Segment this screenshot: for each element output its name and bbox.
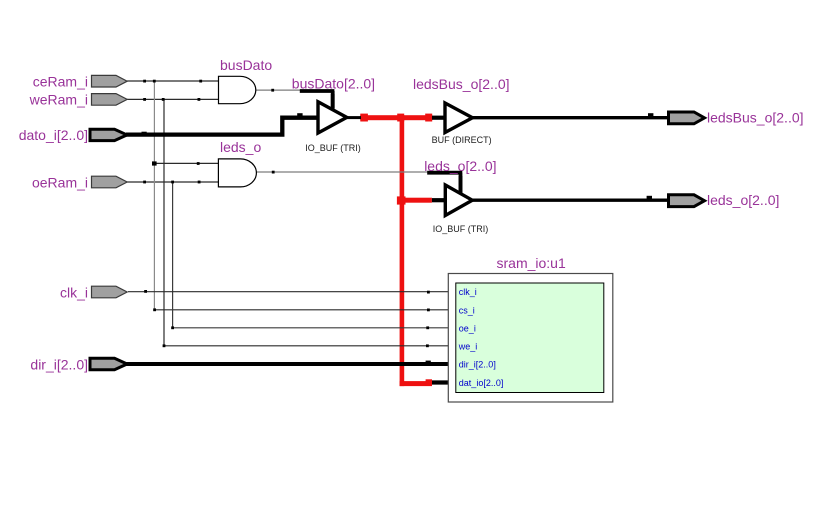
bus leds_o control elbow into IO_BUF2 top xyxy=(427,173,462,194)
junction dot ceRam c xyxy=(199,80,202,83)
svg-text:dir_i[2..0]: dir_i[2..0] xyxy=(459,360,496,370)
svg-text:ledsBus_o[2..0]: ledsBus_o[2..0] xyxy=(413,76,510,92)
net red bus vertical xyxy=(400,115,405,386)
wire weRam_i vertical to we_i xyxy=(164,99,448,345)
junction red at IO_BUF1 output xyxy=(360,114,368,122)
wire oeRam_i horizontal xyxy=(127,181,218,183)
svg-text:ledsBus_o[2..0]: ledsBus_o[2..0] xyxy=(707,109,804,125)
svg-text:oe_i: oe_i xyxy=(459,323,476,333)
svg-text:oeRam_i: oeRam_i xyxy=(32,174,88,190)
junction dot oe corner xyxy=(171,326,174,329)
svg-text:leds_o[2..0]: leds_o[2..0] xyxy=(707,192,779,208)
wire busDato control tail into triangle xyxy=(331,94,335,109)
wire leds upper input horizontal xyxy=(154,162,218,164)
junction dot weRam c xyxy=(198,98,201,101)
junction dot ceRam b xyxy=(153,80,156,83)
junction red before BUF input xyxy=(425,114,432,122)
net red bus horizontal top xyxy=(360,115,432,120)
port input ceRam_i xyxy=(92,75,128,87)
wire leds_o AND output xyxy=(256,171,428,173)
bus dat_io black stub xyxy=(432,380,448,384)
junction dot leds upper xyxy=(197,162,200,165)
junction tick leds output xyxy=(647,196,652,199)
junction tick dato bus xyxy=(142,132,147,135)
wire clk_i horizontal xyxy=(128,291,448,293)
junction red at dat_io corner xyxy=(426,379,432,385)
wire IO_BUF1 output stub xyxy=(345,116,361,119)
junction red at vertical branch top xyxy=(397,114,404,122)
port input oeRam_i xyxy=(92,176,128,188)
junction dot ceRam a xyxy=(143,80,146,83)
junction dot cs xyxy=(427,309,430,312)
svg-text:busDato[2..0]: busDato[2..0] xyxy=(292,76,375,92)
junction dot oe xyxy=(426,326,429,329)
junction dot cs corner xyxy=(153,308,156,311)
svg-text:dir_i[2..0]: dir_i[2..0] xyxy=(30,356,88,372)
junction tick dir bus xyxy=(426,361,431,364)
junction dot oeRam c xyxy=(198,181,201,184)
bus black into BUF (DIRECT) xyxy=(432,116,447,120)
svg-text:BUF (DIRECT): BUF (DIRECT) xyxy=(432,135,492,145)
wire weRam_i horizontal xyxy=(127,98,219,100)
svg-text:dato_i[2..0]: dato_i[2..0] xyxy=(19,127,88,143)
junction dot weRam b xyxy=(162,98,165,101)
junction dot AND1 output xyxy=(271,89,274,92)
port input dato_i[2..0] xyxy=(90,129,127,140)
port input dir_i[2..0] xyxy=(90,358,127,369)
wire cs_i horizontal xyxy=(154,309,448,311)
wire ceRam_i horizontal xyxy=(127,80,219,82)
wire busDato AND output xyxy=(256,89,301,91)
net red bottom to dat_io xyxy=(400,381,432,386)
sram_io:u1 inner green box xyxy=(456,283,604,393)
svg-text:busDato: busDato xyxy=(220,57,272,73)
wire oeRam_i vertical to oe_i xyxy=(173,182,449,328)
wire leds_o control tail into triangle xyxy=(459,176,463,194)
buffer U3 IO_BUF (TRI) leds xyxy=(445,185,472,216)
bus IO_BUF2 output to leds_o port xyxy=(471,198,668,201)
port output ledsBus_o[2..0] xyxy=(669,112,705,124)
svg-text:IO_BUF (TRI): IO_BUF (TRI) xyxy=(433,224,489,234)
junction tick ledsBus output xyxy=(648,113,653,116)
bus dir_i to sram xyxy=(126,362,448,366)
net red branch to IO_BUF2 xyxy=(400,198,432,203)
port input weRam_i xyxy=(92,94,128,106)
junction square leds upper at vertical xyxy=(152,161,157,165)
junction dot weRam a xyxy=(143,98,146,101)
svg-text:dat_io[2..0]: dat_io[2..0] xyxy=(459,378,504,388)
and-gate busDato xyxy=(219,76,256,103)
bus black into IO_BUF2 xyxy=(432,198,447,202)
svg-text:leds_o[2..0]: leds_o[2..0] xyxy=(424,158,496,174)
junction dot AND2 output xyxy=(272,171,275,174)
junction dot clk a xyxy=(144,290,147,293)
and-gate leds_o xyxy=(218,159,256,187)
svg-text:sram_io:u1: sram_io:u1 xyxy=(497,255,566,271)
buffer U1 IO_BUF (TRI) busDato xyxy=(318,102,347,133)
junction dot we corner xyxy=(163,344,166,347)
bus dato_i elbow to IO_BUF input xyxy=(126,118,319,135)
junction dot we xyxy=(426,344,429,347)
bus BUF output to ledsBus_o port xyxy=(471,116,668,119)
junction tick before IO_BUF1 input xyxy=(297,113,302,116)
svg-text:clk_i: clk_i xyxy=(60,284,88,300)
junction dot oeRam a xyxy=(143,181,146,184)
junction red at leds branch xyxy=(397,196,406,204)
svg-text:weRam_i: weRam_i xyxy=(29,92,88,108)
port output leds_o[2..0] xyxy=(669,195,705,207)
sram_io:u1 outer box xyxy=(448,274,613,403)
svg-text:ceRam_i: ceRam_i xyxy=(33,74,88,90)
junction dot oeRam b xyxy=(171,181,174,184)
buffer U2 BUF (DIRECT) xyxy=(445,103,473,133)
svg-text:leds_o: leds_o xyxy=(220,139,261,155)
svg-text:cs_i: cs_i xyxy=(459,305,475,315)
svg-text:IO_BUF (TRI): IO_BUF (TRI) xyxy=(305,143,361,153)
svg-text:clk_i: clk_i xyxy=(459,287,477,297)
junction dot clk b xyxy=(427,291,430,294)
bus busDato control elbow into IO_BUF top xyxy=(300,91,335,109)
svg-text:we_i: we_i xyxy=(458,342,478,352)
port input clk_i xyxy=(92,286,128,298)
wire ceRam_i vertical to cs_i xyxy=(153,81,155,310)
